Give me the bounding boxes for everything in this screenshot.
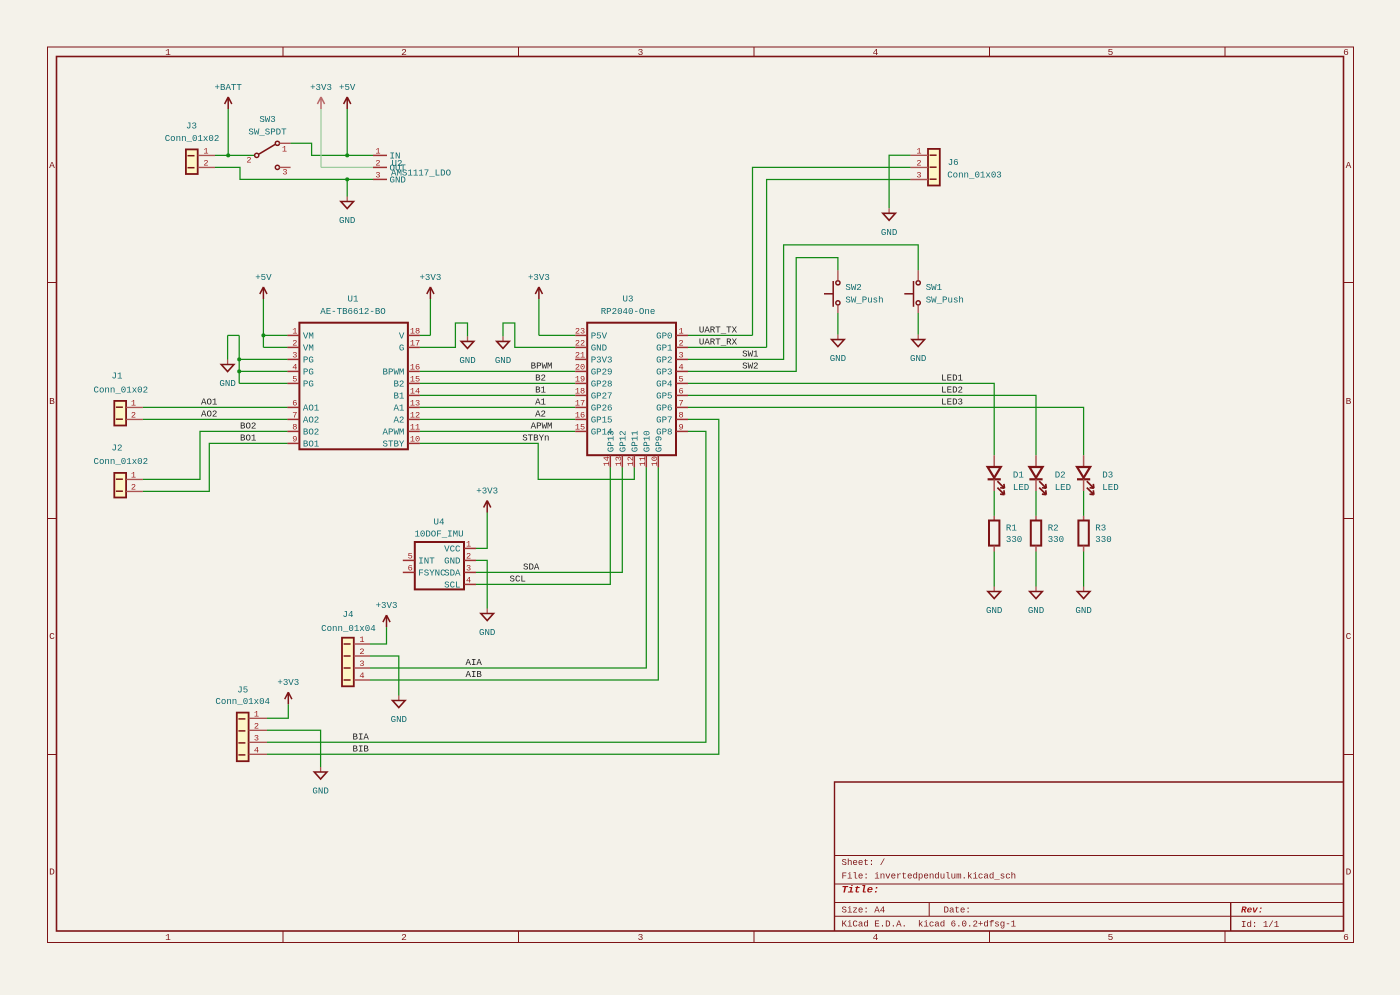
svg-text:Conn_01x04: Conn_01x04	[321, 623, 376, 634]
U4 pin names	[418, 544, 461, 591]
svg-text:3: 3	[359, 659, 364, 669]
svg-text:GP27: GP27	[591, 391, 613, 402]
svg-text:GND: GND	[881, 227, 897, 238]
svg-text:6: 6	[292, 398, 297, 408]
svg-text:10: 10	[410, 434, 420, 444]
svg-text:2: 2	[246, 156, 251, 166]
svg-text:2: 2	[131, 410, 136, 420]
wire D1 to R1	[993, 491, 995, 516]
svg-text:16: 16	[575, 410, 585, 420]
svg-text:2: 2	[203, 158, 208, 168]
svg-text:17: 17	[410, 338, 420, 348]
svg-text:Title:: Title:	[842, 885, 880, 897]
svg-text:SW_Push: SW_Push	[926, 294, 964, 305]
wire A1	[420, 406, 575, 408]
frame column labels 1-6	[165, 47, 1349, 943]
svg-text:Conn_01x02: Conn_01x02	[94, 384, 149, 395]
svg-text:U3: U3	[623, 294, 634, 305]
svg-text:AO2: AO2	[303, 415, 319, 426]
svg-text:GP7: GP7	[656, 415, 672, 426]
svg-text:AMS1117_LDO: AMS1117_LDO	[391, 167, 451, 178]
wire +BATT riser	[227, 109, 229, 155]
svg-text:+5V: +5V	[339, 82, 356, 93]
svg-text:15: 15	[575, 422, 585, 432]
wire +5V riser	[346, 109, 348, 155]
svg-text:SW3: SW3	[259, 114, 275, 125]
U1 pin numbers	[292, 326, 420, 444]
svg-text:Conn_01x02: Conn_01x02	[94, 456, 149, 467]
svg-text:2: 2	[131, 482, 136, 492]
svg-text:BO2: BO2	[240, 421, 256, 432]
svg-text:+BATT: +BATT	[215, 82, 243, 93]
svg-text:GP26: GP26	[591, 403, 613, 414]
svg-text:5: 5	[292, 374, 297, 384]
svg-text:UART_TX: UART_TX	[699, 325, 738, 336]
svg-text:2: 2	[401, 47, 407, 58]
svg-text:GND: GND	[219, 378, 235, 389]
svg-text:LED: LED	[1055, 482, 1071, 493]
svg-text:GND: GND	[591, 343, 607, 354]
svg-text:3: 3	[375, 170, 380, 180]
frame row ticks	[48, 283, 1354, 755]
mcu U3 body	[587, 323, 676, 456]
svg-text:SW2: SW2	[845, 282, 861, 293]
svg-text:GND: GND	[910, 353, 926, 364]
svg-text:+3V3: +3V3	[419, 272, 441, 283]
wire +3V3 riser pale	[320, 109, 322, 167]
svg-text:STBY: STBY	[383, 439, 405, 450]
svg-text:R2: R2	[1048, 522, 1059, 533]
svg-text:LED: LED	[1102, 482, 1118, 493]
svg-text:6: 6	[1343, 47, 1349, 58]
svg-text:AIB: AIB	[466, 669, 483, 680]
svg-text:13: 13	[410, 398, 420, 408]
connector J1	[114, 401, 143, 426]
svg-text:9: 9	[679, 422, 684, 432]
svg-text:GND: GND	[1028, 605, 1044, 616]
switch SW1	[904, 270, 920, 313]
svg-text:LED3: LED3	[941, 397, 963, 408]
svg-text:2: 2	[466, 551, 471, 561]
power +3V3 at U1	[429, 287, 431, 299]
ground right of U1	[467, 336, 469, 341]
connector J4	[342, 638, 370, 687]
wire BO1 J2 pin2 to U1 pin9	[143, 443, 288, 491]
wire STBYn U1 pin10 to GP11	[420, 443, 634, 479]
junction GND node at U2	[345, 177, 349, 181]
junction PG node 1	[237, 357, 241, 361]
svg-text:B: B	[49, 396, 55, 407]
svg-text:KiCad E.D.A. kicad 6.0.2+dfsg: KiCad E.D.A. kicad 6.0.2+dfsg-1	[842, 919, 1017, 930]
svg-text:B2: B2	[393, 379, 404, 390]
svg-text:6: 6	[1343, 932, 1349, 943]
svg-text:VM: VM	[303, 343, 314, 354]
svg-text:14: 14	[410, 386, 420, 396]
svg-text:1: 1	[679, 326, 684, 336]
svg-text:GP10: GP10	[642, 430, 653, 452]
svg-text:GP4: GP4	[656, 379, 672, 390]
title block box and dividers	[835, 782, 1344, 931]
svg-text:1: 1	[375, 146, 380, 156]
switch SW3	[255, 141, 291, 169]
led D3	[1077, 455, 1094, 494]
svg-text:A2: A2	[535, 409, 546, 420]
svg-text:BIB: BIB	[353, 744, 370, 755]
connector J2	[114, 473, 143, 498]
svg-text:U4: U4	[434, 516, 445, 527]
wire UART_TX U3 pin1	[688, 334, 753, 336]
wire J6 pin3 UART_RX drop	[767, 180, 911, 348]
power +5V at U1	[262, 287, 264, 299]
svg-text:R3: R3	[1095, 522, 1106, 533]
svg-text:1: 1	[131, 470, 136, 480]
wire LED3 GP6 to D3	[688, 407, 1084, 455]
junction +BATT node	[226, 153, 230, 157]
svg-text:J6: J6	[948, 157, 959, 168]
wire AIB J4 pin4 to GP9	[370, 467, 658, 680]
wire U1 pin18 to +3V3	[420, 299, 431, 335]
svg-text:11: 11	[410, 422, 420, 432]
svg-text:G: G	[399, 343, 404, 354]
svg-text:9: 9	[292, 434, 297, 444]
svg-text:BPWM: BPWM	[531, 361, 553, 372]
svg-text:SW_Push: SW_Push	[845, 294, 883, 305]
svg-text:3: 3	[282, 168, 287, 178]
U2 pin numbers	[375, 146, 380, 180]
resistor R1	[989, 516, 999, 552]
U1 left pins	[287, 335, 299, 443]
switch SW2	[824, 270, 840, 313]
power +BATT	[227, 97, 229, 109]
svg-text:J1: J1	[112, 370, 123, 381]
svg-text:Rev:: Rev:	[1241, 905, 1263, 916]
svg-text:LED1: LED1	[941, 373, 963, 384]
svg-text:2: 2	[375, 158, 380, 168]
wire SW2 to ground	[837, 313, 839, 335]
wire J5 pin2 to ground	[267, 730, 321, 767]
wire SW1 to ground	[917, 313, 919, 335]
svg-text:GND: GND	[495, 355, 511, 366]
svg-text:BPWM: BPWM	[383, 367, 405, 378]
svg-text:1: 1	[916, 146, 921, 156]
ground below SW2	[837, 335, 839, 340]
J1 pin numbers	[131, 398, 136, 420]
wire GP3 to SW2	[688, 258, 838, 372]
wire J3 pin2 to U2 GND	[215, 167, 373, 179]
svg-text:B1: B1	[535, 385, 546, 396]
svg-text:8: 8	[679, 410, 684, 420]
svg-text:10: 10	[650, 456, 660, 466]
svg-text:1: 1	[359, 635, 364, 645]
wire AO1 J1 pin1 to U1 pin6	[143, 406, 288, 408]
svg-text:20: 20	[575, 362, 585, 372]
U2 pin names IN OUT GND	[390, 151, 407, 186]
svg-text:A1: A1	[393, 403, 404, 414]
svg-text:3: 3	[292, 350, 297, 360]
svg-text:GND: GND	[986, 605, 1002, 616]
ground below U2	[346, 197, 348, 202]
svg-text:A1: A1	[535, 397, 546, 408]
svg-text:1: 1	[254, 709, 259, 719]
svg-text:1: 1	[466, 539, 471, 549]
svg-text:GP1: GP1	[656, 343, 673, 354]
svg-text:330: 330	[1006, 534, 1022, 545]
svg-text:Id: 1/1: Id: 1/1	[1241, 919, 1280, 930]
svg-text:SW1: SW1	[926, 282, 943, 293]
svg-text:GND: GND	[459, 355, 475, 366]
svg-text:AO1: AO1	[303, 403, 320, 414]
led D1	[988, 455, 1005, 494]
ground below R1	[993, 587, 995, 592]
svg-text:7: 7	[292, 410, 297, 420]
svg-text:D3: D3	[1102, 470, 1113, 481]
wire J3 pin1 to SW3 common	[215, 154, 255, 156]
svg-text:V: V	[399, 331, 405, 342]
svg-text:STBYn: STBYn	[522, 433, 549, 444]
wire J4 pin2 to ground	[370, 656, 399, 696]
svg-text:18: 18	[410, 326, 420, 336]
svg-text:10DOF_IMU: 10DOF_IMU	[414, 529, 463, 540]
power +5V top	[346, 97, 348, 109]
wire U1 VM pins to +5V	[263, 299, 287, 347]
svg-text:U1: U1	[348, 294, 359, 305]
ground below U4	[486, 609, 488, 614]
ground at U1 PG	[227, 360, 229, 365]
wire LED1 GP4 to D1	[688, 383, 994, 455]
frame column ticks	[283, 47, 1225, 943]
svg-text:GP29: GP29	[591, 367, 613, 378]
wire BO2 J2 pin1 to U1 pin8	[143, 431, 288, 479]
U4 pins	[403, 548, 476, 584]
svg-text:1: 1	[165, 47, 171, 58]
svg-text:Conn_01x04: Conn_01x04	[215, 696, 270, 707]
svg-text:3: 3	[254, 733, 259, 743]
wire J6 pin2 UART_TX drop	[753, 167, 911, 335]
J3 pin numbers	[203, 146, 208, 168]
wire APWM	[420, 430, 575, 432]
svg-text:4: 4	[254, 745, 259, 755]
svg-text:BO2: BO2	[303, 427, 319, 438]
svg-text:330: 330	[1048, 534, 1064, 545]
wire GND drop at U2	[346, 179, 348, 196]
svg-text:GP13: GP13	[606, 430, 617, 452]
wire GP2 to SW1	[688, 245, 918, 360]
ground below J6	[888, 208, 890, 213]
svg-text:LED: LED	[1013, 482, 1029, 493]
svg-text:APWM: APWM	[383, 427, 405, 438]
svg-text:11: 11	[638, 456, 648, 466]
svg-text:GP28: GP28	[591, 379, 613, 390]
svg-text:GND: GND	[830, 353, 846, 364]
wire SW3 throw1 to U2 IN	[291, 143, 373, 155]
svg-text:7: 7	[679, 398, 684, 408]
wire B1	[420, 394, 575, 396]
wire LED2 GP5 to D2	[688, 395, 1036, 455]
svg-text:GP15: GP15	[591, 415, 613, 426]
svg-text:+3V3: +3V3	[476, 485, 498, 496]
svg-text:Sheet: /: Sheet: /	[842, 857, 886, 868]
wire U1 pin17 to ground hook	[420, 323, 468, 347]
wire UART_RX U3 pin2	[688, 346, 767, 348]
svg-text:Size: A4: Size: A4	[842, 905, 886, 916]
svg-text:3: 3	[679, 350, 684, 360]
power +3V3 top	[320, 97, 322, 109]
J4 pin numbers	[359, 635, 364, 681]
J6 pin numbers	[916, 146, 921, 180]
svg-text:4: 4	[292, 362, 297, 372]
svg-text:23: 23	[575, 326, 585, 336]
op-amp U1 body	[299, 323, 408, 450]
svg-text:J2: J2	[112, 442, 123, 453]
imu U4 body	[415, 542, 464, 589]
svg-text:SCL: SCL	[444, 580, 460, 591]
led D2	[1029, 455, 1046, 494]
svg-text:GND: GND	[444, 556, 460, 567]
resistor R3	[1078, 516, 1088, 552]
frame row labels A-D	[49, 160, 1352, 878]
svg-text:4: 4	[873, 47, 879, 58]
svg-text:5: 5	[1108, 932, 1114, 943]
svg-text:+3V3: +3V3	[376, 600, 398, 611]
ground left of U3	[502, 336, 504, 341]
U1 pin names	[303, 331, 405, 450]
ground below J4	[398, 696, 400, 701]
svg-text:12: 12	[410, 410, 420, 420]
ground below R3	[1083, 587, 1085, 592]
svg-text:SDA: SDA	[523, 562, 540, 573]
wire J5 pin1 to +3V3	[267, 704, 288, 718]
U3 pin names	[591, 331, 673, 453]
svg-text:6: 6	[408, 563, 413, 573]
svg-text:A: A	[1346, 160, 1352, 171]
wire R1 to ground	[993, 552, 995, 587]
svg-text:GND: GND	[391, 714, 407, 725]
svg-text:GND: GND	[1075, 605, 1091, 616]
J5 pin numbers	[254, 709, 259, 755]
wire B2	[420, 382, 575, 384]
wire GP7 to J5 BIB	[267, 419, 719, 754]
wire SDA U4 to GP12	[476, 467, 622, 572]
svg-text:+3V3: +3V3	[310, 82, 332, 93]
svg-text:+5V: +5V	[255, 272, 272, 283]
svg-text:1: 1	[203, 146, 208, 156]
svg-text:GND: GND	[339, 215, 355, 226]
svg-text:Conn_01x03: Conn_01x03	[947, 170, 1002, 181]
svg-text:APWM: APWM	[531, 421, 553, 432]
connector J5	[237, 713, 267, 762]
connector J6	[910, 149, 939, 186]
svg-text:5: 5	[1108, 47, 1114, 58]
svg-text:8: 8	[292, 422, 297, 432]
svg-text:1: 1	[292, 326, 297, 336]
svg-text:VM: VM	[303, 331, 314, 342]
svg-text:AO2: AO2	[201, 409, 217, 420]
regulator U2 pins	[373, 155, 387, 179]
svg-text:GP11: GP11	[630, 430, 641, 452]
svg-text:GP6: GP6	[656, 403, 672, 414]
U3 left pins	[575, 335, 587, 431]
svg-text:2: 2	[401, 932, 407, 943]
wire R2 to ground	[1035, 552, 1037, 587]
resistor R2	[1031, 516, 1041, 552]
svg-text:3: 3	[638, 47, 644, 58]
U3 pin numbers	[575, 326, 684, 466]
svg-text:6: 6	[679, 386, 684, 396]
svg-text:13: 13	[614, 456, 624, 466]
svg-text:22: 22	[575, 338, 585, 348]
wire SCL U4 to GP13	[476, 467, 610, 584]
svg-text:GND: GND	[479, 627, 495, 638]
svg-text:5: 5	[408, 551, 413, 561]
junction U1 VM node	[261, 333, 265, 337]
svg-text:A2: A2	[393, 415, 404, 426]
wire GP8 to J5 BIA	[267, 431, 706, 742]
svg-text:C: C	[49, 631, 55, 642]
svg-text:2: 2	[292, 338, 297, 348]
svg-text:17: 17	[575, 398, 585, 408]
svg-text:RP2040-One: RP2040-One	[601, 306, 656, 317]
svg-text:3: 3	[916, 171, 921, 181]
J2 pin numbers	[131, 470, 136, 492]
svg-text:B1: B1	[393, 391, 404, 402]
svg-text:GP0: GP0	[656, 331, 672, 342]
wire U4 VCC to +3V3	[476, 513, 487, 549]
wire J6 pin1 to ground	[889, 155, 910, 208]
svg-text:AE-TB6612-BO: AE-TB6612-BO	[320, 306, 386, 317]
svg-text:AIA: AIA	[466, 657, 483, 668]
svg-text:2: 2	[916, 158, 921, 168]
svg-text:+3V3: +3V3	[277, 677, 299, 688]
svg-text:+3V3: +3V3	[528, 272, 550, 283]
svg-text:3: 3	[466, 563, 471, 573]
svg-text:B: B	[1346, 396, 1352, 407]
wire U3 pin22 to ground hook	[503, 323, 575, 347]
svg-text:SW2: SW2	[742, 361, 758, 372]
svg-text:SW_SPDT: SW_SPDT	[248, 127, 287, 138]
ground below R2	[1035, 587, 1037, 592]
svg-text:21: 21	[575, 350, 585, 360]
svg-text:12: 12	[626, 456, 636, 466]
svg-text:GP3: GP3	[656, 367, 672, 378]
svg-text:1: 1	[165, 932, 171, 943]
svg-text:2: 2	[679, 338, 684, 348]
svg-text:BO1: BO1	[240, 433, 257, 444]
svg-text:R1: R1	[1006, 522, 1017, 533]
U3 bottom pins	[610, 455, 658, 467]
svg-text:15: 15	[410, 374, 420, 384]
power +3V3 at J5	[287, 692, 289, 704]
svg-text:GP2: GP2	[656, 355, 672, 366]
svg-text:14: 14	[602, 456, 612, 466]
svg-text:330: 330	[1095, 534, 1111, 545]
svg-text:4: 4	[466, 575, 471, 585]
svg-text:P3V3: P3V3	[591, 355, 613, 366]
wire AO2 J1 pin2 to U1 pin7	[143, 418, 288, 420]
svg-text:PG: PG	[303, 367, 314, 378]
svg-text:SCL: SCL	[510, 574, 526, 585]
svg-text:P5V: P5V	[591, 331, 608, 342]
svg-text:AO1: AO1	[201, 397, 218, 408]
U3 right pins	[676, 335, 688, 431]
wire AIA J4 pin3 to GP10	[370, 467, 646, 668]
ground below J5	[320, 767, 322, 772]
svg-text:FSYNC: FSYNC	[418, 568, 446, 579]
svg-text:SDA: SDA	[444, 568, 461, 579]
svg-text:D2: D2	[1055, 470, 1066, 481]
svg-text:2: 2	[359, 647, 364, 657]
svg-text:LED2: LED2	[941, 385, 963, 396]
svg-text:Conn_01x02: Conn_01x02	[165, 133, 220, 144]
